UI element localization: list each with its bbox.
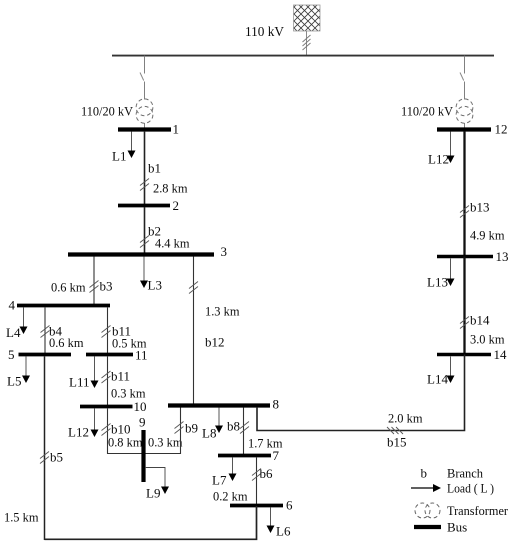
svg-text:b9: b9 (185, 421, 198, 436)
svg-text:L4: L4 (6, 325, 21, 340)
svg-text:3.0 km: 3.0 km (470, 332, 505, 347)
wire bottom of b10 to bus 9 (108, 453, 181, 455)
svg-text:4: 4 (9, 298, 16, 313)
load L12 left (68, 409, 99, 440)
transformer T2 110/20 kV (456, 99, 473, 123)
branch b13 (460, 131, 505, 255)
branch b6 (213, 458, 273, 505)
svg-text:Bus: Bus (447, 520, 467, 535)
branch b9 (175, 408, 199, 455)
branch b11 upper (102, 308, 147, 354)
svg-text:110 kV: 110 kV (245, 25, 284, 40)
bus 4 (9, 298, 111, 313)
svg-text:12: 12 (495, 122, 508, 137)
label 110/20 kV left (81, 104, 134, 119)
svg-text:b: b (421, 466, 428, 481)
svg-text:4.4 km: 4.4 km (155, 236, 190, 251)
load L14 (427, 357, 455, 387)
label 110/20 kV right (401, 104, 454, 119)
svg-text:0.6 km: 0.6 km (49, 335, 84, 350)
bus 9 (139, 415, 146, 483)
svg-text:2: 2 (173, 198, 180, 213)
svg-text:L5: L5 (7, 374, 21, 389)
svg-text:2.8 km: 2.8 km (153, 181, 188, 196)
bus 3 (68, 244, 227, 259)
bus 11 (86, 348, 148, 363)
external grid source (294, 5, 321, 31)
load L1 (112, 132, 136, 164)
svg-text:7: 7 (273, 448, 280, 463)
load L13 (427, 259, 455, 290)
svg-text:Transformer: Transformer (447, 503, 509, 518)
svg-text:L8: L8 (202, 426, 216, 441)
svg-text:b6: b6 (260, 466, 274, 481)
svg-text:b15: b15 (387, 435, 407, 450)
svg-text:6: 6 (286, 498, 293, 513)
svg-text:L12: L12 (68, 425, 89, 440)
wire right feeder upper (464, 56, 466, 74)
svg-text:9: 9 (139, 415, 146, 430)
svg-text:Branch: Branch (447, 466, 483, 481)
bus 5 (8, 347, 71, 362)
wire left feeder upper (144, 56, 146, 74)
bus 6 (230, 498, 293, 513)
svg-text:L11: L11 (69, 375, 89, 390)
bus 13 (437, 249, 509, 264)
svg-text:1.3 km: 1.3 km (205, 304, 240, 319)
branch b4 (41, 308, 84, 354)
svg-text:110/20 kV: 110/20 kV (401, 104, 454, 119)
load L8 (202, 408, 223, 441)
load L11 (69, 357, 99, 390)
svg-text:1.5 km: 1.5 km (4, 510, 39, 525)
svg-text:1: 1 (173, 122, 180, 137)
svg-text:b14: b14 (470, 313, 490, 328)
bus 1 (118, 122, 179, 137)
load L3 (140, 257, 162, 293)
load L5 (7, 357, 30, 389)
wire source drop (306, 31, 308, 56)
branch b2 (140, 207, 190, 253)
svg-text:L3: L3 (148, 278, 162, 293)
branch b8 (227, 408, 283, 455)
legend bus symbol (414, 520, 467, 535)
svg-text:b1: b1 (148, 161, 161, 176)
legend branch symbol (421, 466, 484, 481)
svg-text:10: 10 (134, 399, 147, 414)
load L9 (145, 468, 169, 501)
svg-text:0.6 km: 0.6 km (51, 280, 86, 295)
svg-text:0.8 km: 0.8 km (108, 435, 143, 450)
load L6 (267, 508, 291, 539)
svg-text:L9: L9 (146, 486, 160, 501)
svg-text:Load ( L ): Load ( L ) (447, 481, 494, 496)
svg-text:0.3 km: 0.3 km (148, 435, 183, 450)
svg-text:2.0 km: 2.0 km (388, 411, 423, 426)
load L12 right (428, 132, 455, 167)
bus 7 (218, 448, 280, 463)
wire bottom loop (45, 506, 257, 539)
svg-text:3: 3 (221, 244, 228, 259)
hash marks source line (303, 35, 311, 50)
svg-text:L13: L13 (427, 275, 448, 290)
branch b5 (4, 357, 63, 541)
label 0.3 km branch b9 (148, 435, 183, 450)
wire right feeder lower (464, 82, 466, 132)
svg-text:b13: b13 (470, 200, 490, 215)
svg-text:4.9 km: 4.9 km (470, 228, 505, 243)
svg-text:13: 13 (496, 249, 509, 264)
svg-text:L7: L7 (212, 473, 227, 488)
svg-text:11: 11 (135, 348, 148, 363)
svg-text:L12: L12 (428, 152, 449, 167)
svg-text:L1: L1 (112, 149, 126, 164)
bus 2 (118, 198, 179, 213)
svg-text:14: 14 (494, 347, 508, 362)
svg-text:b11: b11 (111, 369, 130, 384)
bus 12 (437, 122, 508, 137)
branch b10 (102, 409, 143, 455)
switch right feeder (460, 73, 464, 81)
svg-text:b8: b8 (227, 419, 240, 434)
svg-text:8: 8 (273, 397, 280, 412)
svg-text:L14: L14 (427, 372, 448, 387)
load L7 (212, 458, 237, 488)
load L4 (6, 308, 28, 341)
svg-text:L6: L6 (276, 524, 291, 539)
legend transformer symbol (415, 503, 509, 518)
wire left feeder lower (144, 82, 146, 132)
branch b15 (257, 355, 465, 450)
bus 10 (80, 399, 147, 414)
svg-text:b12: b12 (205, 335, 225, 350)
svg-text:0.2 km: 0.2 km (213, 489, 248, 504)
svg-text:110/20 kV: 110/20 kV (81, 104, 134, 119)
branch b14 (460, 257, 505, 354)
110 kV busbar (112, 55, 494, 57)
branch b11 lower (102, 357, 146, 406)
transformer T1 110/20 kV (136, 99, 153, 123)
svg-text:5: 5 (8, 347, 15, 362)
svg-text:b5: b5 (50, 450, 63, 465)
svg-text:b3: b3 (100, 279, 113, 294)
switch left feeder (140, 73, 144, 81)
branch b12 (189, 257, 240, 404)
legend load symbol (411, 481, 494, 496)
label 110 kV (245, 25, 284, 40)
branch b3 (51, 257, 113, 305)
bus 14 (437, 347, 507, 362)
branch b1 (140, 131, 188, 204)
bus 8 (168, 397, 279, 412)
